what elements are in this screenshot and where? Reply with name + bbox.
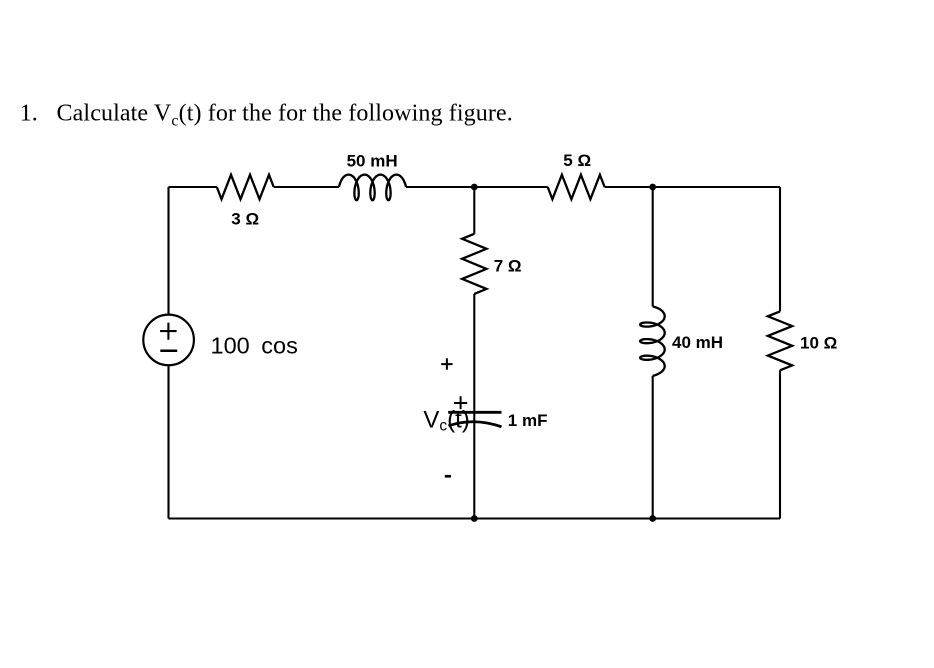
svg-text:50 mH: 50 mH	[347, 151, 398, 170]
svg-text:10 Ω: 10 Ω	[800, 333, 837, 352]
svg-text:5 Ω: 5 Ω	[563, 151, 591, 170]
svg-text:7 Ω: 7 Ω	[494, 257, 522, 276]
svg-text:1.: 1.	[20, 100, 38, 126]
svg-text:100 cos: 100 cos	[211, 333, 298, 359]
svg-text:Calculate Vc(t) for the for th: Calculate Vc(t) for the for the followin…	[57, 100, 513, 129]
svg-text:3 Ω: 3 Ω	[231, 209, 259, 228]
svg-text:1 mF: 1 mF	[508, 411, 548, 430]
svg-text:40 mH: 40 mH	[672, 333, 723, 352]
svg-text:Vc(t): Vc(t)	[423, 406, 469, 434]
